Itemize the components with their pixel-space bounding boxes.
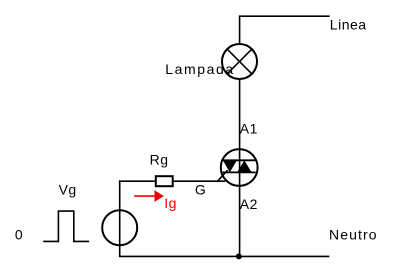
lamp L1 circle: [222, 44, 257, 79]
svg-text:Vg: Vg: [59, 181, 77, 197]
svg-text:0: 0: [15, 227, 23, 243]
svg-text:A1: A1: [240, 121, 258, 137]
resistor Rg body: [156, 176, 173, 186]
wire source to resistor: [119, 180, 155, 182]
wire gate from resistor to triac: [174, 180, 226, 182]
triac left triangle (down): [223, 160, 237, 172]
wire vertical through source: [119, 180, 121, 256]
svg-text:A2: A2: [240, 196, 258, 212]
triac bottom bar: [223, 171, 256, 173]
source V1 circle: [102, 210, 137, 245]
junction dot: [236, 253, 242, 259]
wire bottom bus Neutro: [119, 255, 329, 257]
current arrow Ig (red): [134, 195, 156, 197]
svg-text:Neutro: Neutro: [329, 226, 378, 242]
svg-text:Lampada: Lampada: [165, 61, 235, 77]
lamp X stroke 2: [227, 49, 252, 74]
svg-text:Ig: Ig: [164, 195, 177, 211]
wire lamp to triac: [239, 79, 241, 150]
wire through triac down to bottom bus: [239, 150, 241, 256]
wire vertical from top corner to lamp: [239, 15, 241, 44]
lamp X stroke 1: [227, 49, 252, 74]
triac top bar: [223, 159, 256, 161]
triac T1 circle: [221, 149, 258, 186]
svg-text:Linea: Linea: [330, 17, 367, 33]
pulse waveform: [43, 211, 89, 241]
triac right triangle (up): [237, 160, 252, 172]
wire top horizontal to Linea: [240, 15, 330, 17]
svg-text:Rg: Rg: [150, 151, 169, 167]
triac gate lead diagonal: [217, 170, 228, 182]
svg-text:G: G: [195, 182, 206, 198]
